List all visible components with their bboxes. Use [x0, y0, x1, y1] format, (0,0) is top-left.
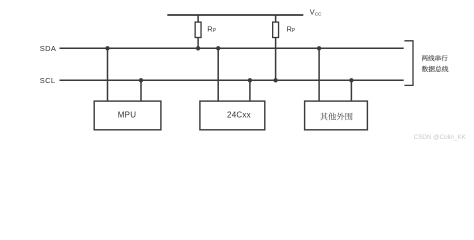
- wire 24Cxx SDA pin to SDA bus: [217, 48, 219, 101]
- resistor R2 body (Rp pull-up on SCL): [273, 22, 279, 37]
- svg-text:MPU: MPU: [118, 110, 137, 119]
- wire Vcc rail to resistor R1: [197, 15, 199, 22]
- wire peripheral SCL pin to SCL bus: [350, 80, 352, 101]
- wire peripheral SDA pin to SDA bus: [318, 48, 320, 101]
- wire MPU SDA pin to SDA bus: [107, 48, 109, 101]
- svg-text:SDA: SDA: [40, 44, 56, 53]
- resistor R1 body (Rp pull-up on SDA): [195, 22, 201, 37]
- junction 24Cxx-SCL: [248, 78, 252, 82]
- junction R2-SCL: [273, 78, 277, 82]
- junction R1-SDA: [196, 46, 200, 50]
- wire resistor R1 to SDA bus: [197, 38, 199, 49]
- junction MPU-SDA: [105, 46, 109, 50]
- svg-text:RP: RP: [287, 25, 296, 35]
- svg-text:24Cxx: 24Cxx: [227, 110, 251, 119]
- junction peripheral-SDA: [317, 46, 321, 50]
- svg-text:VCC: VCC: [310, 8, 322, 17]
- bus-group bracket: [404, 41, 413, 86]
- junction 24Cxx-SDA: [216, 46, 220, 50]
- wire resistor R2 to SCL bus (crosses SDA): [275, 38, 277, 81]
- junction MPU-SCL: [139, 78, 143, 82]
- wire 24Cxx SCL pin to SCL bus: [249, 80, 251, 101]
- 24Cxx block: [200, 101, 265, 130]
- wire MPU SCL pin to SCL bus: [140, 80, 142, 101]
- MPU block: [94, 101, 161, 130]
- SDA bus wire: [60, 47, 404, 49]
- Vcc power rail: [167, 14, 303, 16]
- other-peripheral block: [305, 101, 368, 130]
- other-peripheral block label 其他外围: [320, 113, 353, 121]
- wire Vcc rail to resistor R2: [275, 15, 277, 22]
- SCL bus wire: [60, 79, 404, 81]
- svg-text:CSDN @Colin_KK: CSDN @Colin_KK: [414, 134, 467, 141]
- svg-text:SCL: SCL: [40, 76, 56, 85]
- bus annotation line1 两线串行: [422, 55, 448, 61]
- svg-text:RP: RP: [207, 25, 216, 35]
- bus annotation line2 数据总线: [422, 66, 448, 72]
- junction peripheral-SCL: [349, 78, 353, 82]
